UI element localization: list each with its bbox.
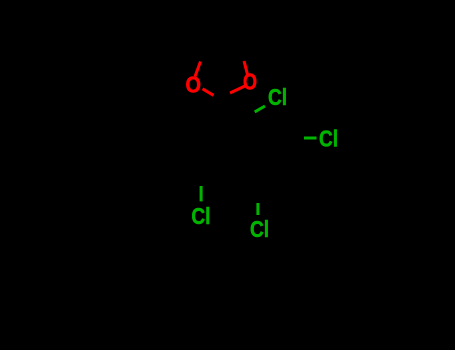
wire: bond O1-spiro C (lower red half-bond, left)	[203, 89, 214, 96]
svg-text:Cl: Cl	[319, 126, 338, 152]
svg-text:O: O	[243, 69, 257, 95]
wire: bond O1-C (upper left red half-bond)	[195, 62, 201, 77]
svg-text:O: O	[186, 71, 202, 97]
wire: bond C-Cl3 (green half-bond, vertical left)	[200, 186, 203, 201]
wire: bond C-Cl1 (green half-bond, diagonal)	[255, 106, 265, 112]
wire: bond O2-C (upper right red half-bond)	[244, 61, 248, 75]
wire: bond O2-spiro C (lower red half-bond, right)	[230, 86, 246, 94]
wire: bond C-Cl4 (green half-bond, vertical right)	[256, 203, 259, 215]
wire: bond C-Cl2 (green half-bond, horizontal)	[304, 137, 317, 140]
svg-text:Cl: Cl	[268, 84, 287, 110]
svg-text:Cl: Cl	[191, 203, 210, 229]
svg-text:Cl: Cl	[250, 216, 269, 242]
